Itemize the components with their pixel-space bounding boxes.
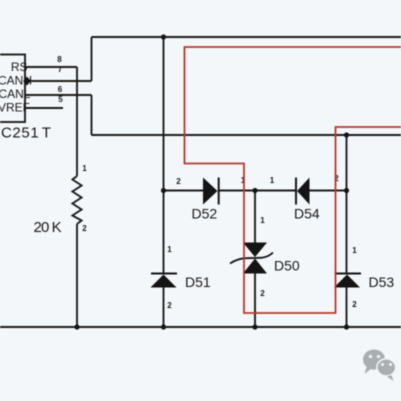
junction dot row / D53 column xyxy=(344,188,349,193)
svg-text:D54: D54 xyxy=(294,206,320,222)
wire CANH pin xyxy=(25,80,92,82)
wire RS pin to resistor column xyxy=(25,66,77,68)
junction dot row / D51 column xyxy=(161,188,166,193)
diode D54 (cathode left, anode right) xyxy=(296,178,310,205)
svg-text:1: 1 xyxy=(270,176,275,185)
wire diode row right segment xyxy=(310,190,347,192)
svg-text:1: 1 xyxy=(260,216,265,225)
wire D53 anode to ground bus xyxy=(346,288,348,328)
wire diode row left segment xyxy=(164,190,204,192)
WeChat logo small bubble xyxy=(377,359,396,381)
diode D51 (cathode up) xyxy=(151,274,178,288)
junction dot ground bus / resistor column xyxy=(74,324,79,329)
WeChat logo big bubble xyxy=(363,350,385,375)
junction dot top bus / D51 column xyxy=(161,34,166,39)
wire D50 bottom to ground bus xyxy=(254,274,256,328)
wire D51 column from top bus to diode row xyxy=(163,37,165,191)
svg-text:2: 2 xyxy=(167,301,172,310)
wire red highlighted surge path xyxy=(185,47,401,313)
svg-text:2: 2 xyxy=(260,289,265,298)
junction dot ground bus / D51 column xyxy=(161,324,166,329)
wire diode row middle segment xyxy=(219,190,297,192)
diode D52 (anode left, cathode right) xyxy=(203,178,219,205)
svg-text:1: 1 xyxy=(352,246,357,255)
junction dot ground bus / D53 column xyxy=(344,324,349,329)
wire CANH top bus xyxy=(92,36,401,38)
junction dot CANH pin at U1 xyxy=(23,77,31,86)
svg-text:D50: D50 xyxy=(274,258,300,274)
svg-text:2: 2 xyxy=(352,300,357,309)
svg-text:20K: 20K xyxy=(34,219,62,236)
op-amp U1 (CAN transceiver 82C251T) box xyxy=(0,55,25,123)
wire resistor column upper xyxy=(76,67,78,176)
svg-text:1: 1 xyxy=(82,164,87,173)
diode D53 (cathode up) xyxy=(334,274,361,288)
svg-text:1: 1 xyxy=(167,245,172,254)
WeChat logo small bubble eyes xyxy=(381,363,384,366)
resistor R? 20K zigzag xyxy=(72,176,81,224)
wire D53 column from CANL bus through row to D53 xyxy=(346,135,348,274)
wire ground bus bottom xyxy=(0,326,401,328)
wire resistor column lower to ground bus xyxy=(76,224,78,327)
junction dot row / D50 column xyxy=(252,188,257,193)
svg-text:CANL: CANL xyxy=(0,87,31,101)
svg-text:D51: D51 xyxy=(185,274,211,290)
wire D51 anode to ground bus xyxy=(163,288,165,328)
wire CANL bus xyxy=(92,134,401,136)
svg-text:D53: D53 xyxy=(369,274,395,290)
wire D51 column row to D51 xyxy=(163,191,165,274)
junction dot ground bus / D50 column xyxy=(252,324,257,329)
svg-text:D52: D52 xyxy=(192,206,218,222)
svg-text:6: 6 xyxy=(58,85,63,94)
wire CANH riser xyxy=(91,37,93,81)
wire CANL drop xyxy=(91,95,93,135)
TVS diode D50 (bidirectional) xyxy=(230,243,273,274)
WeChat logo big bubble eyes xyxy=(369,355,372,358)
wire VREF stub xyxy=(25,107,63,109)
wire D50 column row to D50 xyxy=(254,191,256,243)
svg-text:5: 5 xyxy=(58,95,63,104)
svg-text:RS: RS xyxy=(11,60,28,74)
junction dot CANL bus / D53 column xyxy=(344,132,349,137)
svg-text:8: 8 xyxy=(57,55,62,64)
wire CANL pin xyxy=(25,94,92,96)
svg-text:2: 2 xyxy=(176,177,181,186)
svg-text:C251T: C251T xyxy=(1,125,52,142)
svg-text:2: 2 xyxy=(82,224,87,233)
